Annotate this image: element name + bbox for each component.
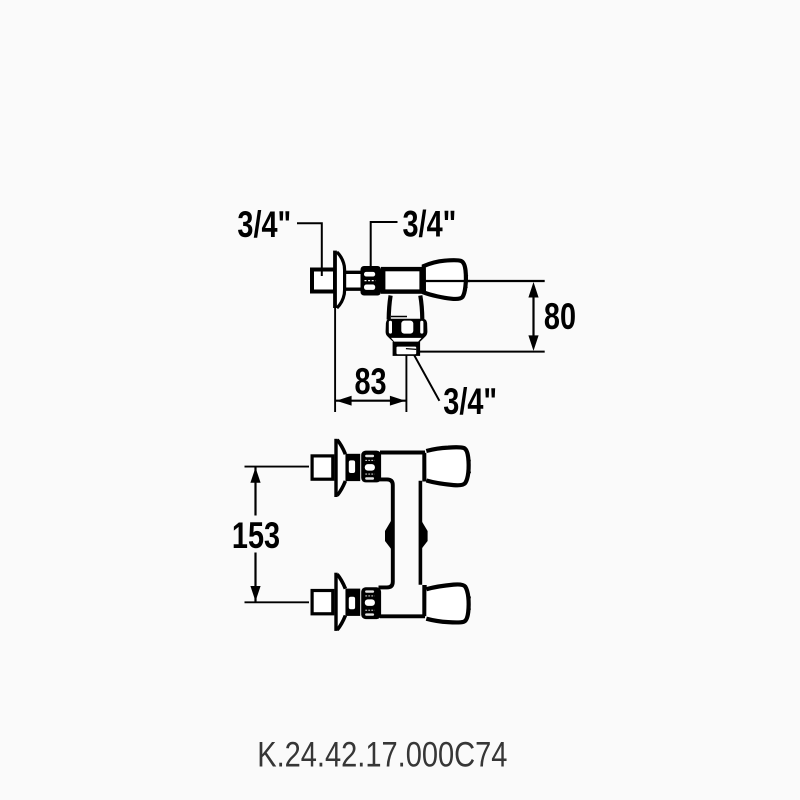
svg-text:3/4": 3/4" — [403, 204, 457, 245]
svg-text:3/4": 3/4" — [443, 382, 497, 423]
svg-text:83: 83 — [354, 362, 386, 403]
svg-text:3/4": 3/4" — [237, 205, 291, 246]
svg-text:80: 80 — [544, 297, 576, 338]
svg-text:153: 153 — [232, 516, 280, 557]
svg-text:K.24.42.17.000C74: K.24.42.17.000C74 — [257, 735, 507, 774]
